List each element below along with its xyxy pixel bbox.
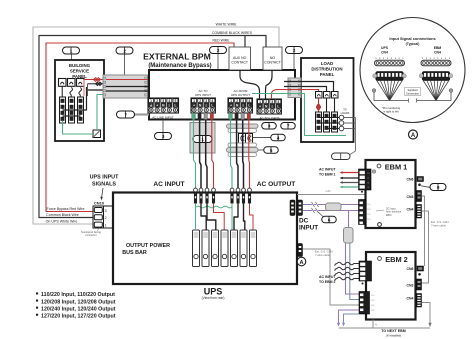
conduit block between BPM and load panel — [288, 78, 301, 98]
output power bus bars — [193, 230, 200, 267]
svg-text:3: 3 — [162, 99, 164, 103]
svg-text:2: 2 — [105, 216, 107, 220]
svg-text:CN10: CN10 — [94, 201, 105, 206]
svg-text:1: 1 — [193, 99, 195, 103]
svg-text:G: G — [367, 187, 369, 189]
ground pins and base wire — [372, 89, 376, 93]
pin1 marker EBM1 — [361, 191, 363, 193]
svg-text:4: 4 — [211, 99, 213, 103]
UPS top edge connectors — [194, 188, 198, 192]
svg-text:L: L — [174, 104, 176, 108]
black feed wire lower — [88, 89, 104, 91]
CAN connector on UPS right edge — [298, 244, 303, 257]
svg-text:127/220 Input, 127/220 Output: 127/220 Input, 127/220 Output — [41, 314, 116, 320]
EBM 1 enclosure box — [366, 160, 416, 228]
svg-text:A: A — [411, 133, 416, 139]
svg-text:COMBINE BLACK WIRES: COMBINE BLACK WIRES — [212, 31, 253, 35]
svg-text:5: 5 — [175, 99, 177, 103]
wire black branch to AUX contact — [244, 36, 246, 48]
svg-text:Common Black Wire: Common Black Wire — [46, 213, 79, 217]
svg-text:+: + — [259, 105, 261, 109]
svg-text:(View from rear): (View from rear) — [202, 296, 225, 300]
wire red (top/left loop to CN10 pin3) — [46, 43, 234, 212]
breaker pigtails — [70, 88, 73, 98]
coil coupler boxes AC output — [239, 134, 246, 144]
svg-text:DISTRIBUTION: DISTRIBUTION — [311, 67, 342, 72]
red feed wire with twist connector — [84, 79, 104, 81]
svg-text:AC INPUT: AC INPUT — [319, 167, 336, 171]
svg-text:3: 3 — [105, 209, 107, 213]
load distribution panel box — [301, 58, 354, 142]
svg-text:AC INPUT: AC INPUT — [319, 275, 336, 279]
svg-text:LOADS: LOADS — [341, 111, 350, 115]
svg-text:DC: DC — [368, 204, 372, 206]
svg-text:⏚: ⏚ — [149, 103, 152, 108]
svg-text:1: 1 — [150, 99, 152, 103]
svg-text:3: 3 — [162, 134, 165, 139]
svg-text:2: 2 — [265, 100, 267, 104]
NO CONTACT box — [263, 47, 282, 70]
svg-text:CN3: CN3 — [406, 284, 413, 288]
black feed wire with twist connector — [88, 83, 104, 85]
svg-text:WHITE WIRE: WHITE WIRE — [216, 23, 237, 27]
svg-text:2: 2 — [217, 48, 220, 53]
DC connector on UPS right edge (outer) — [298, 200, 303, 216]
svg-text:+: + — [193, 104, 195, 108]
svg-text:CN6: CN6 — [406, 267, 413, 271]
terminal block AC TO UPS INPUT — [191, 98, 215, 113]
svg-text:AUX NO: AUX NO — [233, 56, 247, 60]
detail circle input signal connections — [360, 18, 465, 123]
svg-text:4: 4 — [248, 99, 250, 103]
load branch wires and circles — [319, 117, 340, 119]
callout 5 — [258, 149, 264, 151]
svg-text:LOAD: LOAD — [321, 61, 333, 66]
callout 2 above conduit block — [124, 54, 126, 75]
callout 4 — [253, 137, 271, 139]
svg-text:4: 4 — [168, 99, 170, 103]
svg-text:4: 4 — [277, 100, 279, 104]
svg-text:7: 7 — [287, 124, 290, 129]
svg-text:BUS BAR: BUS BAR — [122, 250, 147, 256]
wire break marks — [312, 202, 315, 207]
svg-text:≡: ≡ — [168, 104, 170, 108]
svg-text:CONTACT: CONTACT — [264, 61, 282, 65]
svg-text:L: L — [211, 104, 213, 108]
dot inside EBM1 — [378, 223, 382, 227]
svg-text:On UPS White Wire: On UPS White Wire — [46, 220, 78, 224]
svg-text:AC INPUT: AC INPUT — [153, 181, 184, 188]
svg-text:+: + — [230, 104, 232, 108]
svg-text:DC: DC — [372, 300, 376, 302]
green ground wire in building panel — [63, 121, 94, 134]
callout 3 — [262, 123, 277, 130]
purple and blue wires down to EBM2 — [346, 243, 360, 294]
svg-text:(Maintenance Bypass): (Maintenance Bypass) — [148, 63, 211, 69]
cable EBM2 CN4 to next EBM — [422, 303, 431, 327]
svg-text:AC LINE INPUT: AC LINE INPUT — [152, 116, 174, 120]
svg-text:DC: DC — [368, 209, 372, 211]
svg-text:A: A — [299, 260, 303, 266]
wire black combine (top/left loop to CN10 pin2) — [39, 36, 266, 218]
DC branch down to EBM2 — [348, 211, 350, 228]
svg-text:≡: ≡ — [205, 104, 207, 108]
EBM1 AC input terminal block — [359, 169, 372, 190]
EBM2 DC connector block — [359, 292, 370, 315]
svg-text:CN3: CN3 — [406, 195, 413, 199]
svg-text:4: 4 — [277, 135, 280, 140]
EBM2 AC input coiled wires — [337, 262, 359, 265]
svg-text:UPS INPUT: UPS INPUT — [195, 93, 211, 97]
callout 2 above right conduit block — [293, 54, 295, 79]
svg-text:9: 9 — [437, 185, 440, 190]
building service panel box — [55, 60, 104, 141]
svg-text:EBM 1: EBM 1 — [385, 162, 408, 171]
svg-text:2: 2 — [236, 99, 238, 103]
bus wires in building panel — [63, 109, 81, 111]
svg-text:EBM: EBM — [386, 214, 391, 217]
svg-text:L: L — [277, 105, 279, 109]
svg-text:DC: DC — [372, 310, 376, 312]
wires BPM to load panel - black L1 — [284, 82, 334, 92]
wire stubs below AC FROM UPS OUTPUT — [229, 113, 232, 120]
cable EBM1 CN4 to EBM2 CN3 — [422, 211, 429, 283]
lower white and gray bars AC output — [228, 143, 257, 147]
svg-text:(If installed): (If installed) — [386, 333, 402, 337]
breakers in load panel — [316, 92, 323, 99]
circled A under detail circle — [409, 130, 418, 139]
svg-text:≡: ≡ — [242, 104, 244, 108]
svg-text:Force Bypass Red Wire: Force Bypass Red Wire — [47, 207, 85, 211]
svg-text:DC: DC — [368, 214, 372, 216]
gray dot top of EBM1 AC block — [372, 170, 375, 173]
svg-text:Connection: Connection — [406, 91, 420, 95]
svg-text:INPUT: INPUT — [299, 225, 318, 232]
callout 3 below AC LINE INPUT — [162, 120, 164, 133]
DC connector on UPS right edge (inner) — [290, 200, 295, 216]
svg-text:3: 3 — [205, 99, 207, 103]
UPS enclosure box — [113, 193, 297, 285]
svg-text:EXTERNAL BPM: EXTERNAL BPM — [143, 52, 211, 62]
conduit block between panel and BPM — [103, 75, 148, 98]
svg-text:PANEL: PANEL — [320, 72, 335, 77]
svg-text:AC OUTPUT: AC OUTPUT — [257, 181, 295, 188]
EBM 2 enclosure box — [366, 252, 416, 320]
svg-text:7-wire cable: 7-wire cable — [315, 253, 331, 257]
ground lug box in building panel — [93, 130, 101, 138]
terminal strips in load panel — [316, 112, 322, 132]
gray CAN cable to EBM2 — [303, 249, 360, 305]
svg-text:UPS: UPS — [204, 286, 223, 296]
wires BPM to load panel - black L2 — [284, 87, 327, 92]
svg-text:≡: ≡ — [271, 105, 273, 109]
voltage configuration list — [36, 292, 38, 294]
EBM2 AC input terminal block — [359, 261, 372, 281]
svg-text:RED WIRE: RED WIRE — [213, 39, 231, 43]
svg-text:120/240 Input, 120/240 Output: 120/240 Input, 120/240 Output — [41, 306, 116, 312]
svg-text:TO EBM 1: TO EBM 1 — [319, 172, 336, 176]
svg-text:CN4: CN4 — [406, 208, 413, 212]
AC output wires green black black red — [231, 120, 233, 189]
svg-text:NO: NO — [270, 56, 276, 60]
svg-text:TO NEXT EBM: TO NEXT EBM — [381, 329, 406, 333]
svg-text:DC: DC — [368, 219, 372, 221]
circled A marker at UPS — [297, 257, 306, 266]
svg-text:UPS OUTPUT: UPS OUTPUT — [231, 93, 251, 97]
AC input wires green black black red — [194, 120, 196, 189]
svg-text:OUTPUT POWER: OUTPUT POWER — [126, 243, 170, 249]
svg-text:7-wire cable: 7-wire cable — [431, 224, 447, 228]
svg-text:2: 2 — [123, 48, 126, 53]
svg-text:1: 1 — [259, 100, 261, 104]
callout 7b — [281, 123, 296, 130]
svg-text:+: + — [156, 104, 158, 108]
svg-text:7: 7 — [124, 112, 127, 117]
wires BPM to load panel - green — [252, 94, 346, 136]
svg-text:SERVICE: SERVICE — [70, 69, 89, 74]
callout 1 above building service panel — [71, 54, 73, 60]
svg-text:DC: DC — [372, 295, 376, 297]
callout double capsule near load panel — [332, 153, 351, 160]
arrow to CN10 — [102, 188, 104, 198]
svg-text:1: 1 — [105, 224, 107, 228]
wires BPM to load panel - red — [272, 90, 319, 100]
svg-text:2: 2 — [199, 99, 201, 103]
CN10 connector — [93, 206, 104, 228]
svg-text:2: 2 — [293, 48, 296, 53]
AUX NO CONTACT box — [229, 47, 251, 70]
svg-text:AC TO LOADS: AC TO LOADS — [259, 116, 279, 120]
svg-text:3: 3 — [268, 124, 271, 129]
callout 7 at BPM left edge — [135, 113, 150, 115]
svg-text:3: 3 — [271, 100, 273, 104]
callout 9 — [421, 186, 431, 188]
ferrite bead on DC cable — [326, 203, 342, 211]
svg-text:120/208 Input, 120/208 Output: 120/208 Input, 120/208 Output — [41, 299, 116, 305]
svg-text:UPS INPUT: UPS INPUT — [90, 175, 119, 181]
svg-text:110/220 Input, 110/220 Output: 110/220 Input, 110/220 Output — [41, 292, 115, 298]
callout 6 with leader — [318, 212, 323, 217]
svg-text:CONTACT: CONTACT — [231, 61, 249, 65]
svg-text:2: 2 — [156, 99, 158, 103]
wires from contact boxes to AC TO LOADS — [240, 70, 260, 99]
svg-text:1: 1 — [230, 99, 232, 103]
UPS CN4 connector assembly — [375, 58, 377, 60]
cable EBM1 CN3 to EBM2 CN6 — [422, 196, 425, 266]
svg-text:TO EBM 2: TO EBM 2 — [319, 280, 336, 284]
svg-text:*Pin numbering: *Pin numbering — [382, 106, 401, 110]
terminal block AC FROM UPS OUTPUT — [228, 98, 252, 113]
svg-text:1: 1 — [201, 137, 204, 142]
svg-text:CN4: CN4 — [381, 50, 388, 54]
EBM1 AC input wires with arrowheads — [341, 172, 359, 174]
wire stubs below AC TO UPS INPUT — [192, 113, 195, 120]
cable wrap vertical — [344, 228, 354, 244]
svg-text:1: 1 — [70, 48, 73, 53]
svg-text:DC: DC — [299, 218, 309, 225]
svg-text:is right to left: is right to left — [383, 109, 398, 113]
svg-text:6: 6 — [328, 217, 331, 222]
svg-text:SIGNALS: SIGNALS — [92, 182, 116, 188]
svg-text:(Typical): (Typical) — [406, 42, 420, 46]
External BPM enclosure box — [149, 70, 295, 120]
wire white (top/left loop to CN10 pin1) — [33, 27, 279, 224]
terminal strips in building panel — [60, 97, 66, 123]
svg-text:connector: connector — [85, 233, 97, 237]
svg-text:EBM 2: EBM 2 — [385, 255, 408, 264]
svg-text:BUILDING: BUILDING — [69, 63, 91, 68]
upper gray bar AC output — [227, 124, 259, 128]
svg-text:5: 5 — [270, 148, 273, 153]
svg-text:3: 3 — [242, 99, 244, 103]
UPS interior wire jogs — [195, 203, 197, 229]
gray signal line UPS to EBM1 — [297, 194, 371, 196]
wires crossing conduit to AC line input — [106, 80, 173, 99]
svg-text:Input Signal connections: Input Signal connections — [389, 36, 435, 41]
svg-text:DC: DC — [372, 305, 376, 307]
svg-text:L: L — [248, 104, 250, 108]
svg-text:CN6: CN6 — [406, 177, 413, 181]
callout 2 above BPM box — [217, 54, 219, 71]
svg-text:CN4: CN4 — [406, 297, 413, 301]
svg-text:Cat5: Cat5 — [325, 190, 331, 193]
terminal block AC TO LOADS — [257, 99, 281, 114]
cable from load panel down to callout — [350, 118, 356, 155]
svg-text:CN4: CN4 — [434, 50, 441, 54]
label supplied connection — [405, 88, 421, 96]
breaker squares in building panel — [59, 79, 67, 87]
wires to next EBM with arrowheads — [339, 310, 360, 326]
EBM CN4 connector assembly — [422, 58, 424, 60]
pin1 marker EBM2 — [362, 283, 364, 285]
purple DC wires to EBM1 — [303, 204, 359, 206]
EBM1 DC connector block — [359, 200, 367, 225]
to next EBM line — [339, 320, 374, 329]
conduit block above UPS AC input — [190, 123, 215, 154]
red diamond indicator — [316, 103, 321, 111]
terminal block AC LINE INPUT — [148, 98, 179, 113]
